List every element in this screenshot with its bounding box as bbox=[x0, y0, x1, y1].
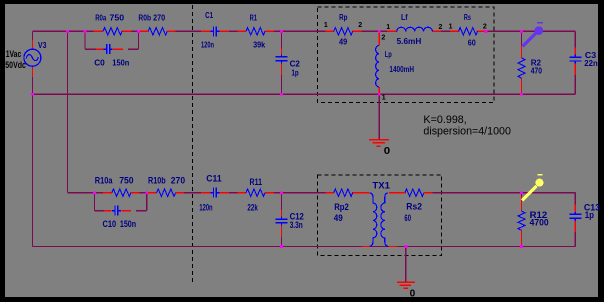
resistor R12 bbox=[517, 211, 527, 231]
junction dot top bottom rail: C2 bbox=[280, 93, 283, 96]
svg-text:Rp2: Rp2 bbox=[334, 202, 349, 212]
wire C0 parallel branch bbox=[84, 31, 86, 49]
junction dot bottom rail: gnd bbox=[404, 245, 407, 248]
svg-text:150n: 150n bbox=[112, 57, 129, 67]
svg-text:49: 49 bbox=[339, 37, 347, 47]
junction dot top rail: Lp node bbox=[378, 30, 381, 33]
junction dot top rail: Rs pin2 bbox=[485, 30, 488, 33]
resistor Rp bbox=[333, 27, 354, 37]
wire mid rail left (bottom circuit top) bbox=[68, 192, 361, 194]
wire mid rail right (bottom circuit top) bbox=[390, 192, 575, 194]
svg-text:22k: 22k bbox=[247, 202, 258, 212]
svg-text:1Vac: 1Vac bbox=[6, 49, 22, 59]
wire C12 branch column bbox=[281, 193, 283, 247]
wire C13 right column bbox=[574, 193, 576, 247]
capacitor C10 bbox=[104, 210, 112, 212]
resistor R10b bbox=[156, 188, 176, 198]
svg-text:R0b: R0b bbox=[138, 13, 151, 23]
svg-text:120n: 120n bbox=[199, 202, 212, 212]
svg-text:270: 270 bbox=[171, 175, 185, 185]
svg-text:750: 750 bbox=[110, 13, 125, 23]
resistor R10a bbox=[112, 188, 132, 198]
junction dot top rail: x138 bbox=[137, 30, 140, 33]
capacitor C12 bbox=[275, 218, 288, 226]
svg-text:150n: 150n bbox=[120, 219, 136, 229]
junction dot mid rail: C12 node bbox=[280, 191, 283, 194]
svg-text:470: 470 bbox=[531, 66, 542, 76]
inductor Lp bbox=[374, 45, 384, 87]
svg-text:TX1: TX1 bbox=[372, 180, 390, 190]
wire second left column bbox=[67, 31, 69, 192]
wire R2 branch column bbox=[521, 31, 523, 94]
junction dot top bottom rail: R2 bbox=[520, 93, 523, 96]
wire V3 column bbox=[32, 31, 34, 246]
junction dot bottom rail: R12 bbox=[520, 245, 523, 248]
wire bottom rail (top circuit) bbox=[33, 93, 576, 95]
resistor R11 bbox=[246, 188, 266, 198]
svg-text:C11: C11 bbox=[206, 173, 221, 183]
svg-text:3.3n: 3.3n bbox=[290, 220, 303, 230]
dashed separator line bbox=[192, 5, 194, 282]
svg-text:C0: C0 bbox=[94, 57, 105, 67]
svg-text:5.6mH: 5.6mH bbox=[397, 36, 422, 46]
dashed subcircuit box (top: Rp Lf Rs Lp) bbox=[318, 7, 495, 103]
wire top rail (top circuit) bbox=[33, 30, 576, 32]
resistor Rs2 bbox=[405, 188, 425, 198]
svg-text:R11: R11 bbox=[250, 177, 263, 187]
svg-text:V3: V3 bbox=[38, 40, 47, 50]
wire ground stem (bottom circuit) bbox=[405, 247, 407, 282]
ground (top circuit) bbox=[369, 139, 389, 141]
capacitor C0 bbox=[96, 48, 103, 50]
junction dot top rail: x67 bbox=[66, 30, 69, 33]
svg-text:2: 2 bbox=[483, 21, 487, 30]
svg-text:22n: 22n bbox=[584, 58, 597, 68]
svg-text:R10b: R10b bbox=[148, 175, 166, 185]
svg-text:0: 0 bbox=[384, 146, 391, 157]
resistor Rp2 bbox=[333, 188, 354, 198]
svg-text:C1: C1 bbox=[205, 10, 213, 20]
capacitor C11 bbox=[209, 188, 220, 199]
svg-text:K=0.998,: K=0.998, bbox=[423, 114, 466, 126]
wire C3 right column bbox=[574, 31, 576, 94]
resistor Rs bbox=[458, 27, 478, 37]
junction dot mid rail: x147 bbox=[145, 191, 148, 194]
inductor Lf bbox=[396, 26, 433, 37]
svg-text:Rp: Rp bbox=[339, 12, 347, 22]
TX1 primary winding bbox=[370, 193, 377, 246]
capacitor C1 bbox=[209, 26, 220, 37]
svg-text:dispersion=4/1000: dispersion=4/1000 bbox=[423, 125, 511, 137]
svg-text:60: 60 bbox=[468, 38, 476, 48]
wire bottom rail (bottom circuit) bbox=[33, 246, 576, 248]
svg-text:1p: 1p bbox=[585, 210, 595, 220]
capacitor C3 bbox=[568, 56, 583, 63]
svg-text:2: 2 bbox=[439, 22, 443, 31]
junction dot top bottom rail: V3 bbox=[31, 93, 34, 96]
junction dot top rail: x85 bbox=[84, 30, 87, 33]
capacitor C13 bbox=[568, 213, 583, 220]
svg-text:50Vdc: 50Vdc bbox=[5, 60, 26, 70]
svg-text:2: 2 bbox=[381, 33, 385, 42]
svg-text:1: 1 bbox=[386, 22, 390, 31]
dashed subcircuit box TX1 (bottom) bbox=[317, 175, 441, 256]
resistor R1 bbox=[246, 27, 266, 37]
wire Lp branch column bbox=[378, 31, 380, 94]
svg-text:Lf: Lf bbox=[401, 12, 408, 22]
junction dot mid rail: x94 bbox=[93, 191, 96, 194]
ground (bottom circuit) bbox=[397, 281, 415, 283]
capacitor C2 bbox=[275, 55, 288, 63]
wire ground stem (top circuit) bbox=[378, 94, 380, 139]
svg-text:750: 750 bbox=[119, 175, 133, 185]
junction dot mid rail: R12 node bbox=[520, 191, 523, 194]
svg-text:R0a: R0a bbox=[95, 13, 106, 23]
svg-text:120n: 120n bbox=[201, 40, 214, 50]
svg-text:1: 1 bbox=[382, 93, 386, 102]
resistor R2 bbox=[517, 57, 527, 78]
svg-text:1p: 1p bbox=[292, 67, 299, 77]
svg-text:39k: 39k bbox=[253, 40, 265, 50]
svg-text:R1: R1 bbox=[250, 13, 258, 23]
svg-text:4700: 4700 bbox=[530, 218, 549, 228]
svg-text:270: 270 bbox=[153, 13, 165, 23]
voltage probe marker (top, violet) bbox=[523, 33, 536, 46]
TX1 secondary winding bbox=[381, 193, 388, 246]
svg-text:C10: C10 bbox=[103, 219, 117, 229]
junction dot top bottom rail: Lp/gnd bbox=[378, 93, 381, 96]
resistor R0b bbox=[148, 27, 168, 37]
junction dot top rail: C2 node bbox=[280, 30, 283, 33]
wire C2 branch column bbox=[281, 31, 283, 94]
svg-text:1: 1 bbox=[449, 21, 453, 30]
wire C10 parallel branch bbox=[94, 193, 96, 211]
voltage source V3 bbox=[31, 40, 33, 50]
voltage probe marker (bottom, yellow) bbox=[522, 186, 536, 200]
svg-text:2: 2 bbox=[358, 20, 362, 29]
svg-text:Lp: Lp bbox=[385, 49, 392, 59]
svg-text:1: 1 bbox=[324, 20, 328, 29]
svg-text:R10a: R10a bbox=[95, 175, 114, 185]
svg-text:Rs2: Rs2 bbox=[406, 201, 422, 211]
svg-text:1400mH: 1400mH bbox=[389, 64, 414, 74]
resistor R0a bbox=[103, 27, 123, 37]
junction dot top rail: R2 node bbox=[520, 30, 523, 33]
wire R12 branch column bbox=[521, 193, 523, 247]
junction dot bottom rail: C12 bbox=[280, 245, 283, 248]
svg-text:60: 60 bbox=[404, 213, 411, 223]
svg-text:Rs: Rs bbox=[464, 12, 471, 22]
svg-text:0: 0 bbox=[410, 288, 416, 299]
svg-text:49: 49 bbox=[334, 213, 343, 223]
